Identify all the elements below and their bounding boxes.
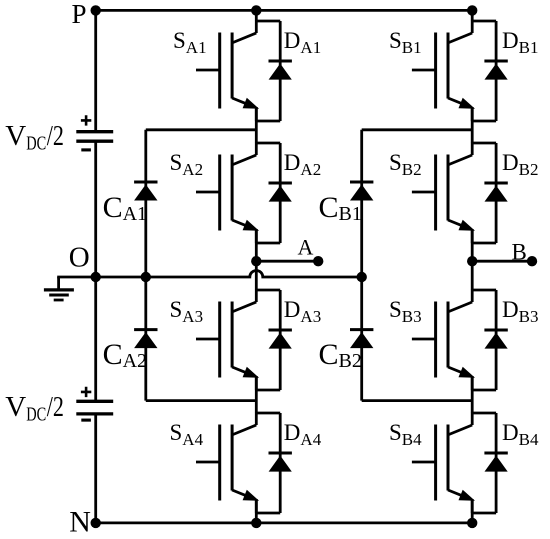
wire: leg B vertical segment 5 [471, 499, 474, 523]
wire: positive rail P [96, 9, 473, 12]
capacitor C1 (dc-link, VDC/2) [76, 115, 113, 150]
wire: leg B vertical segment 1 [471, 10, 474, 21]
diode DA1 (antiparallel) [255, 21, 292, 121]
node phase B [467, 256, 477, 266]
wire: leg A vertical segment 5 [255, 499, 258, 523]
node N [91, 518, 101, 528]
junction bottom rail / leg B [467, 518, 477, 528]
wire: clamp bottom connection leg B [362, 399, 473, 402]
svg-text:P: P [72, 0, 87, 29]
wire: leg B vertical segment 2 [471, 107, 474, 143]
wire: clamp top connection leg B [362, 128, 473, 131]
svg-text:DC: DC [26, 131, 46, 154]
diode DB1 (antiparallel) [471, 21, 508, 121]
junction bottom rail / leg A [251, 518, 261, 528]
transistor SB4 (IGBT) [412, 413, 475, 513]
wire: neutral rail O with hop over leg A [59, 271, 362, 277]
wire: leg A vertical segment 3 [255, 229, 258, 290]
diode DA3 (antiparallel) [255, 290, 292, 390]
diode CA2 (clamp) [134, 330, 157, 349]
transistor SB3 (IGBT) [412, 290, 475, 390]
wire: negative rail N [96, 522, 473, 525]
svg-text:V: V [5, 120, 26, 152]
wire: leg B vertical segment 4 [471, 376, 474, 413]
diode DA4 (antiparallel) [255, 413, 292, 513]
terminal B [527, 256, 537, 266]
svg-text:A: A [298, 235, 314, 260]
junction O rail / clamp A [141, 272, 151, 282]
transistor SA3 (IGBT) [196, 290, 259, 390]
label VDC/2 [5, 390, 64, 425]
label VDC/2 [5, 119, 64, 154]
svg-text:DC: DC [26, 402, 46, 425]
diode CA1 (clamp) [134, 182, 157, 201]
junction top rail / leg A [251, 5, 261, 15]
transistor SA2 (IGBT) [196, 143, 259, 243]
transistor SA4 (IGBT) [196, 413, 259, 513]
wire: clamp branch upper vertical leg A [144, 130, 147, 277]
junction top rail / leg B [467, 5, 477, 15]
svg-text:V: V [5, 391, 26, 423]
diode CB2 (clamp) [350, 330, 373, 349]
wire: output terminal B [472, 260, 532, 263]
wire: leg B vertical segment 3 [471, 229, 474, 290]
diode DB3 (antiparallel) [471, 290, 508, 390]
wire: leg A vertical segment 1 [255, 10, 258, 21]
terminal A [313, 256, 323, 266]
diode CB1 (clamp) [350, 182, 373, 201]
svg-text:/2: /2 [47, 390, 64, 423]
wire: left dc-link, lower capacitor to N [94, 416, 97, 523]
wire: clamp bottom connection leg A [146, 399, 256, 402]
wire: clamp branch lower vertical leg A [144, 277, 147, 401]
wire: left dc-link, P to capacitor C-top [94, 10, 97, 130]
capacitor C2 (dc-link, VDC/2) [76, 387, 113, 420]
node P [91, 5, 101, 15]
diode DB2 (antiparallel) [471, 143, 508, 243]
wire: leg A vertical segment 4 [255, 376, 258, 413]
wire: leg A vertical segment 2 [255, 107, 258, 143]
transistor SA1 (IGBT) [196, 21, 259, 121]
svg-text:B: B [512, 240, 527, 265]
svg-text:N: N [69, 506, 91, 535]
transistor SB1 (IGBT) [412, 21, 475, 121]
diode DB4 (antiparallel) [471, 413, 508, 513]
wire: clamp branch upper vertical leg B [360, 130, 363, 277]
wire: clamp branch lower vertical leg B [360, 277, 363, 401]
wire: left dc-link, capacitor to O [94, 143, 97, 277]
wire: left dc-link, O to lower capacitor [94, 277, 97, 400]
svg-text:/2: /2 [47, 119, 64, 152]
diode DA2 (antiparallel) [255, 143, 292, 243]
wire: clamp top connection leg A [146, 128, 256, 131]
transistor SB2 (IGBT) [412, 143, 475, 243]
wire: output terminal A [256, 260, 318, 263]
junction O rail / clamp B [357, 272, 367, 282]
node O [91, 272, 101, 282]
node phase A [251, 256, 261, 266]
svg-text:O: O [69, 241, 90, 273]
ground symbol at O [44, 277, 74, 300]
